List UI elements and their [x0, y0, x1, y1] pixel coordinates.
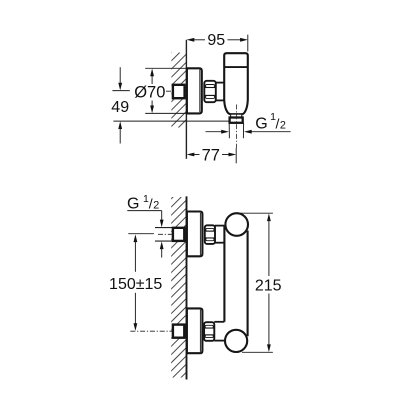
- wall flange / escutcheon (bottom upper): [187, 212, 203, 257]
- wall hatching (top): [164, 28, 196, 142]
- body top sphere (push button, front): [225, 213, 248, 236]
- svg-text:G: G: [255, 116, 267, 133]
- outlet extension lines: [229, 123, 243, 138]
- hex union nut (bottom upper): [205, 225, 215, 244]
- extension lines Ø70: [145, 68, 187, 113]
- union centerline (top, dash-dot): [166, 90, 187, 92]
- connection stub (bottom lower): [214, 322, 225, 341]
- concealed fitting square (bottom, upper): [173, 228, 184, 241]
- svg-text:95: 95: [207, 32, 225, 49]
- wall flange / escutcheon (top, side view): [187, 68, 202, 113]
- concealed fitting square (top): [173, 85, 185, 98]
- dimension 49: [112, 67, 229, 143]
- body bar: [224, 226, 247, 337]
- supply pipe (bottom, upper): [155, 228, 172, 242]
- G 1/2 leader with bracket arrows (bottom): [127, 211, 163, 258]
- concealed fitting square (bottom, lower): [173, 325, 184, 338]
- G 1/2 label (bottom): [127, 193, 159, 212]
- lower union centerline (dash-dot): [130, 330, 186, 332]
- connection stub (bottom upper): [215, 226, 225, 243]
- svg-text:G: G: [127, 195, 139, 212]
- dimension Ø70 arrows: [150, 69, 154, 114]
- svg-text:/: /: [276, 116, 280, 132]
- svg-text:77: 77: [202, 147, 220, 165]
- outlet spout (top): [231, 114, 242, 117]
- svg-text:215: 215: [255, 277, 282, 294]
- outlet centerline (dash-dot): [235, 105, 237, 149]
- connection stub (top): [216, 83, 225, 101]
- dimension 95: [187, 35, 248, 52]
- G 1/2 label (top): [255, 111, 286, 133]
- wall line (top): [185, 40, 187, 159]
- svg-text:49: 49: [111, 99, 129, 116]
- svg-text:2: 2: [153, 199, 159, 211]
- hex union nut (bottom lower): [204, 322, 214, 341]
- valve body with push button cap (top): [224, 53, 248, 67]
- svg-text:/: /: [149, 196, 153, 212]
- G 1/2 thread arrows (top): [206, 130, 291, 134]
- svg-text:2: 2: [280, 119, 286, 131]
- hex union nut (top): [204, 81, 216, 102]
- body bottom sphere (outlet, front): [225, 330, 247, 352]
- svg-text:Ø70: Ø70: [134, 83, 165, 101]
- svg-text:150±15: 150±15: [109, 276, 162, 293]
- upper union centerline (dash-dot): [158, 233, 187, 235]
- dimension 77: [187, 153, 237, 157]
- dimension 150±15: [128, 234, 154, 331]
- wall hatching (bottom): [164, 174, 196, 395]
- wall line (bottom): [186, 196, 188, 379]
- wall flange / escutcheon (bottom lower): [187, 308, 203, 353]
- dimension 215: [239, 213, 273, 352]
